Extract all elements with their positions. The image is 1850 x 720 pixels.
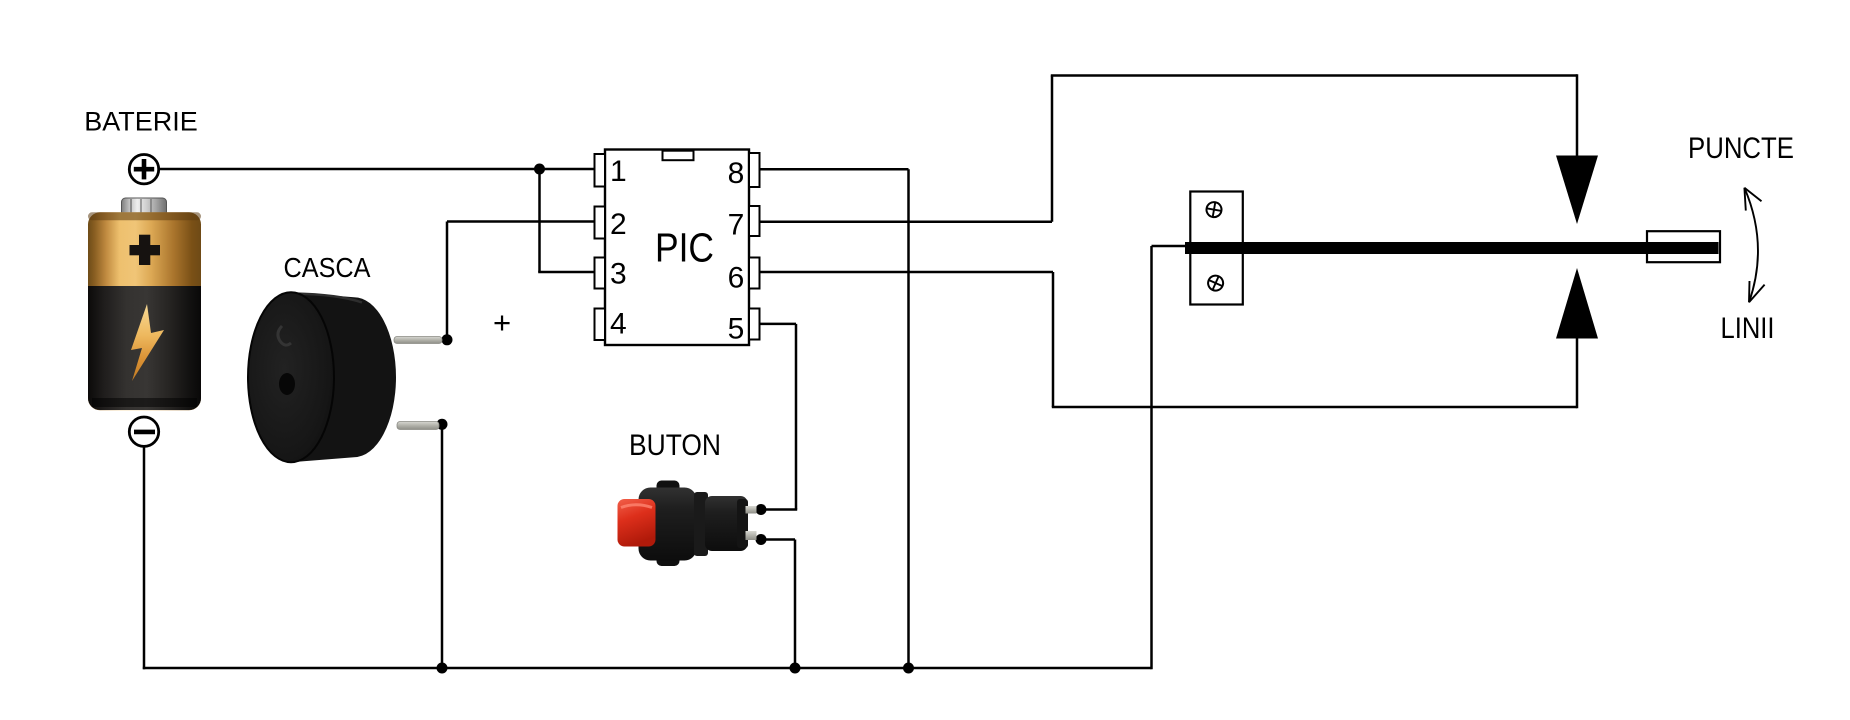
svg-text:5: 5: [728, 313, 745, 346]
IC U1 PIC body: [605, 150, 749, 346]
svg-text:1: 1: [610, 155, 627, 188]
top contact arrow (PUNCTE): [1556, 156, 1598, 225]
telegraph key lever: [1185, 242, 1719, 254]
pin 1: [595, 154, 627, 188]
wire to pin3: [538, 271, 596, 274]
junction button top pin: [756, 504, 767, 515]
key knob: [1647, 231, 1720, 262]
pushbutton BUTON photo: [618, 481, 757, 567]
junction buzzer bottom: [437, 419, 448, 430]
telegraph key bracket with screws: [1190, 192, 1243, 305]
wire bottom run to key contact: [1052, 406, 1577, 409]
wire pin6 down: [1052, 272, 1055, 407]
wire pin8 right: [758, 168, 909, 171]
buzzer top pin: [394, 337, 442, 344]
wire down to top contact: [1576, 74, 1579, 157]
buzzer bottom pin: [397, 422, 439, 430]
buzzer CASCA photo: [248, 292, 396, 462]
svg-text:CASCA: CASCA: [284, 252, 371, 283]
wire node A down: [538, 169, 541, 272]
junction bus-button: [790, 663, 801, 674]
junction bus-buzzer: [437, 663, 448, 674]
battery photo: [88, 198, 201, 410]
wire pin8 down to bus: [907, 169, 910, 668]
pin 3: [595, 258, 627, 291]
wire battery- to bus: [143, 446, 146, 669]
junction buzzer top: [442, 334, 453, 345]
wire button bottom down to bus: [794, 540, 797, 669]
svg-text:2: 2: [610, 208, 627, 241]
svg-text:PIC: PIC: [655, 225, 714, 271]
wire ground bus: [143, 667, 1152, 670]
svg-text:+: +: [493, 305, 511, 340]
svg-text:BUTON: BUTON: [629, 429, 721, 462]
pin 5: [728, 309, 760, 346]
wire top run to key contact: [1051, 74, 1577, 77]
svg-text:7: 7: [728, 209, 745, 242]
wire button bottom pin right: [761, 538, 795, 541]
svg-text:BATERIE: BATERIE: [84, 107, 198, 137]
svg-text:6: 6: [728, 262, 745, 295]
wire key lever to bus: [1150, 246, 1153, 669]
wire pin2 left: [447, 220, 596, 223]
bottom contact arrow (LINII): [1556, 268, 1598, 339]
wire up from pin7: [1051, 76, 1054, 222]
junction button bottom pin: [756, 534, 767, 545]
wire battery+ to pin1: [157, 168, 596, 171]
wire buzzer bottom pin to bus: [441, 424, 444, 668]
pin 8: [728, 153, 760, 190]
wire pin5 right: [758, 323, 796, 326]
wire key lever stub: [1152, 245, 1189, 248]
svg-text:PUNCTE: PUNCTE: [1688, 132, 1794, 165]
svg-text:LINII: LINII: [1721, 312, 1775, 345]
wire to button top pin: [761, 508, 797, 511]
svg-text:4: 4: [610, 308, 627, 341]
curved motion arrow: [1744, 188, 1764, 303]
junction node A: [534, 164, 545, 175]
wire pin6 right: [758, 271, 1053, 274]
svg-text:8: 8: [728, 157, 745, 190]
wire pin5 down: [795, 324, 798, 510]
wire up to bottom contact: [1576, 337, 1579, 408]
wire pin7 right: [758, 220, 1052, 223]
svg-text:3: 3: [610, 258, 627, 291]
battery + terminal: [129, 155, 158, 184]
battery - terminal: [129, 417, 158, 446]
pin 2: [595, 207, 627, 242]
pin 6: [728, 258, 760, 295]
pin 4: [595, 308, 627, 341]
wire down to buzzer top pin: [446, 222, 449, 340]
pin 7: [728, 206, 760, 242]
junction bus-pin8: [903, 663, 914, 674]
